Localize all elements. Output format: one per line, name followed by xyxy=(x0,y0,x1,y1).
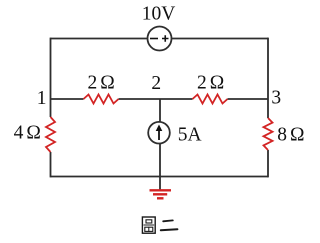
svg-text:5A: 5A xyxy=(178,125,202,146)
wire middle node1-node2 xyxy=(51,98,84,100)
wire right lower xyxy=(267,150,269,177)
wire right upper xyxy=(267,38,269,118)
voltage source V1 plus sign xyxy=(162,35,169,42)
resistor R3 4ohm zigzag xyxy=(46,117,55,152)
voltage source V1 circle xyxy=(148,27,172,51)
current source I1 circle xyxy=(148,122,170,144)
wire bottom xyxy=(51,176,269,178)
ground symbol bar 1 xyxy=(150,189,172,191)
resistor R2 2ohm zigzag xyxy=(193,95,228,104)
resistor R4 8ohm zigzag xyxy=(264,118,273,150)
wire middle node2 area xyxy=(119,98,193,100)
svg-text:2: 2 xyxy=(151,73,161,94)
svg-text:3: 3 xyxy=(271,88,281,109)
svg-text:10V: 10V xyxy=(142,4,176,25)
caption figure-two glyph tu (drawn) xyxy=(142,217,155,233)
svg-text:2Ω: 2Ω xyxy=(197,73,224,94)
resistor R1 2ohm zigzag xyxy=(84,95,119,104)
wire top-left segment xyxy=(51,38,148,40)
wire node2 down to current source xyxy=(159,99,161,122)
svg-text:4Ω: 4Ω xyxy=(14,123,41,144)
current source I1 arrow stem xyxy=(158,129,160,140)
ground symbol bar 2 xyxy=(153,193,167,195)
svg-text:8Ω: 8Ω xyxy=(277,125,304,146)
caption figure-two glyph er (drawn) xyxy=(161,220,178,230)
wire left upper xyxy=(50,38,52,117)
wire middle node3 side xyxy=(228,98,269,100)
wire top-right segment xyxy=(172,38,269,40)
ground symbol bar 3 xyxy=(157,197,164,199)
svg-text:1: 1 xyxy=(37,88,47,109)
wire current source to ground stub xyxy=(159,144,161,191)
voltage source V1 minus sign xyxy=(150,38,158,40)
svg-text:2Ω: 2Ω xyxy=(87,73,114,94)
current source I1 arrow head xyxy=(156,125,163,132)
wire left lower xyxy=(50,152,52,177)
